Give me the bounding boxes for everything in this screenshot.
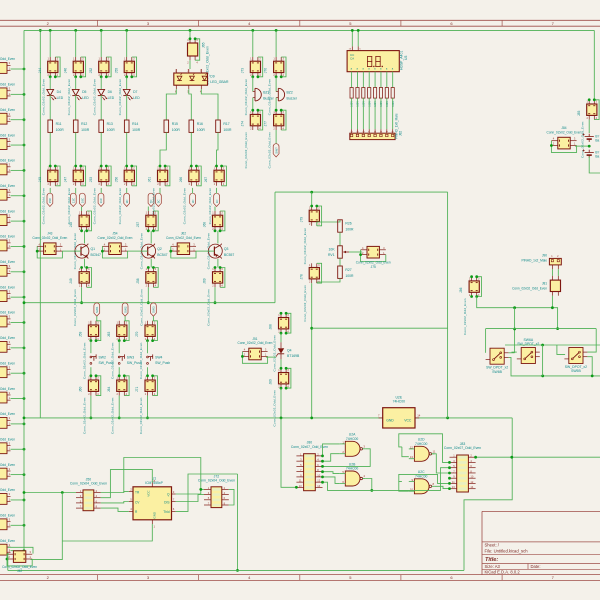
junction J78 drop: [310, 327, 313, 330]
svg-text:Conn_02x02_Odd_Even: Conn_02x02_Odd_Even: [208, 188, 212, 225]
svg-text:Conn_02x02_Odd_Even: Conn_02x02_Odd_Even: [0, 260, 15, 264]
switch SW3 SW_Push: [118, 354, 142, 365]
junction J83 pin2 node: [510, 456, 513, 459]
wire U2A out to J80 pin6: [323, 449, 371, 467]
svg-text:Conn_02x02_Odd_Even: Conn_02x02_Odd_Even: [98, 236, 133, 240]
title block: [482, 511, 600, 574]
connector J47: [63, 165, 85, 225]
junction top rail col J44: [49, 29, 52, 32]
wire R26 to RV1: [339, 232, 341, 246]
svg-text:J79: J79: [299, 217, 303, 222]
svg-text:12: 12: [410, 445, 414, 449]
svg-text:Conn_02x02_Odd_Even: Conn_02x02_Odd_Even: [238, 341, 273, 345]
junction J64 rail: [118, 417, 121, 420]
global label 7C: [148, 193, 154, 206]
svg-text:Conn_02x02_Odd_Even: Conn_02x02_Odd_Even: [0, 83, 15, 87]
svg-text:DIS: DIS: [164, 500, 169, 504]
svg-text:Conn_02x02_Odd_Even: Conn_02x02_Odd_Even: [42, 79, 46, 116]
wire J43 to Q1 base: [62, 250, 74, 252]
junction top rail col J55: [125, 29, 128, 32]
connector J46: [63, 57, 85, 115]
wire D9 pin4 to R17: [201, 89, 218, 120]
wire J65 to LED bar: [189, 60, 191, 69]
svg-text:100R: 100R: [81, 128, 90, 132]
IC U2E 74HC00 power unit: [378, 395, 421, 428]
wire battery bottom out: [589, 157, 600, 174]
connector left-column row 2 (Conn_02x02_Odd_Even): [0, 83, 25, 99]
wire J72 right bracket: [229, 489, 234, 505]
junction x237 bottom: [236, 569, 239, 572]
svg-text:B?: B?: [595, 150, 599, 154]
connector J88: [269, 312, 291, 372]
svg-text:J89: J89: [269, 379, 273, 384]
junction U1 Q node: [199, 488, 202, 491]
connector J64: [107, 374, 129, 434]
junction J50 bus x62: [61, 491, 64, 494]
svg-text:SW_Push: SW_Push: [155, 361, 170, 365]
wire RV1 to R27: [339, 258, 341, 266]
resistor R12 100R: [73, 120, 89, 132]
wire U1 Thld loop: [176, 474, 238, 511]
svg-text:J70: J70: [135, 332, 139, 337]
svg-text:Conn_02x02_Odd_Even: Conn_02x02_Odd_Even: [93, 79, 97, 116]
wire J83 pin2 long: [474, 456, 600, 459]
svg-text:J44: J44: [38, 68, 42, 73]
junction top rail col J46: [74, 29, 77, 32]
svg-text:J90: J90: [542, 253, 547, 257]
svg-text:SW1: SW1: [95, 306, 99, 313]
connector J42: [2, 550, 37, 573]
svg-text:Conn_02x02_Odd_Even: Conn_02x02_Odd_Even: [42, 188, 46, 225]
wire U2D loop top: [399, 434, 450, 463]
wire J66 to tag: [192, 188, 194, 194]
wire net A vertical left: [274, 192, 276, 303]
global label SW?: [273, 144, 279, 157]
wire second vertical rail: [39, 30, 41, 418]
junction J71 rail: [146, 417, 149, 420]
junction J49 bus: [80, 301, 83, 304]
svg-text:J75: J75: [371, 265, 376, 269]
svg-text:Q2: Q2: [157, 247, 162, 251]
svg-text:Conn_02x02_Odd_Even: Conn_02x02_Odd_Even: [244, 79, 248, 116]
connector J84: [547, 126, 582, 153]
svg-text:Conn_02x02_Odd_Even: Conn_02x02_Odd_Even: [0, 488, 15, 492]
connector J89: [269, 367, 291, 427]
junction mid rail x24: [23, 417, 26, 420]
transistor Q2 BC547: [141, 244, 168, 259]
wire J70 to SW4: [147, 341, 149, 354]
svg-text:Conn_02x02_Odd_Even: Conn_02x02_Odd_Even: [0, 311, 15, 315]
svg-text:Q1: Q1: [91, 247, 96, 251]
connector J81 Conn_02x02_Odd_Even: [512, 276, 560, 296]
svg-text:100R: 100R: [345, 274, 354, 278]
wire U3 pin2 down: [356, 72, 358, 88]
connector J49: [69, 266, 91, 326]
svg-text:SW3: SW3: [127, 355, 134, 359]
svg-text:74HC00: 74HC00: [415, 442, 428, 446]
wire J60 to bottom rail: [90, 396, 92, 418]
wire sw5b bottom drop: [587, 357, 593, 378]
svg-text:D9: D9: [210, 75, 214, 79]
svg-text:J46: J46: [63, 68, 67, 73]
wire U1 Q to J72: [176, 489, 204, 494]
resistor R18 100R: [350, 88, 354, 107]
global label SW3: [151, 303, 157, 316]
LED D4: [47, 89, 64, 100]
wire J77 to SW tag: [275, 130, 277, 144]
svg-text:J62: J62: [181, 232, 186, 236]
svg-text:16C: 16C: [81, 197, 85, 203]
svg-text:Conn_02x02_Odd_Even: Conn_02x02_Odd_Even: [183, 188, 187, 225]
wire J79 right to R26: [317, 220, 340, 226]
resistor R21 100R: [368, 88, 372, 107]
svg-text:J77: J77: [264, 121, 268, 126]
svg-text:Conn_02x02_Odd_Even: Conn_02x02_Odd_Even: [93, 188, 97, 225]
connector J76: [264, 57, 286, 115]
svg-text:J71: J71: [135, 387, 139, 392]
wire tag to J68: [214, 207, 216, 212]
svg-text:13C: 13C: [72, 197, 76, 203]
wire J64 to bottom rail: [118, 396, 120, 418]
connector J58: [136, 266, 158, 326]
svg-text:SW2: SW2: [123, 306, 127, 313]
connector left-column row 19 (Conn_02x02_Odd_Even): [0, 514, 25, 530]
svg-text:74HC00: 74HC00: [415, 474, 428, 478]
wire mid horizontal bus: [24, 302, 275, 304]
svg-text:PINHD_1x2_Male: PINHD_1x2_Male: [521, 258, 547, 262]
svg-text:Conn_02x02_Odd_Even: Conn_02x02_Odd_Even: [140, 289, 144, 326]
svg-text:Conn_02x02_Odd_Even: Conn_02x02_Odd_Even: [206, 289, 210, 326]
connector J85: [577, 98, 599, 158]
junction J80 pin2: [321, 455, 324, 458]
wire U1 DIS to J72 pin3: [176, 495, 204, 502]
wire U3 pin8 down: [392, 72, 394, 88]
wire J46 column drop: [75, 30, 77, 57]
junction top rail col J52: [100, 29, 103, 32]
wire J76 to BZ2: [275, 77, 277, 92]
svg-text:D5: D5: [82, 90, 86, 94]
svg-text:11: 11: [433, 449, 436, 453]
wire R13 to row2: [100, 132, 102, 166]
global label 13C: [70, 193, 76, 206]
svg-text:J49: J49: [69, 278, 73, 283]
junction J58 bus: [147, 301, 150, 304]
wire net A horizontal: [275, 191, 448, 193]
svg-text:Q3: Q3: [224, 247, 229, 251]
svg-text:Conn_02x04_Odd_Even: Conn_02x04_Odd_Even: [198, 479, 235, 483]
global label 16C: [79, 193, 85, 206]
svg-text:Conn_02x02_Odd_Even: Conn_02x02_Odd_Even: [268, 132, 272, 169]
wire sw bottom rail: [509, 357, 600, 376]
connector J53: [89, 165, 111, 225]
wire loop J50-U1 top: [124, 458, 201, 495]
switch SW6B SW_DPDT_x2: [486, 348, 509, 374]
wire U3 top pin B: [358, 30, 361, 50]
buzzer BZ2: [276, 88, 298, 101]
svg-text:Title:: Title:: [485, 557, 498, 563]
wire J55 column drop: [126, 30, 128, 57]
connector left-column row 1 (Conn_02x02_Odd_Even): [0, 57, 25, 73]
svg-text:15C: 15C: [48, 197, 52, 203]
wire J71 to bottom rail: [147, 396, 149, 418]
connector left-column row 8 (Conn_02x02_Odd_Even): [0, 235, 25, 251]
svg-text:J84: J84: [561, 126, 566, 130]
global label 9C: [124, 193, 130, 206]
7-segment display U3 HDSP_A401: [347, 51, 408, 72]
svg-text:100R: 100R: [351, 101, 354, 107]
wire R27 to J78: [317, 278, 340, 283]
svg-text:Conn_02x02_Odd_Even: Conn_02x02_Odd_Even: [0, 387, 15, 391]
resistor R22 100R: [373, 88, 377, 107]
junction J69 bus: [214, 301, 217, 304]
svg-text:SW3: SW3: [152, 306, 156, 313]
wire sw5b right feed: [587, 329, 596, 353]
LED D7: [123, 89, 140, 100]
connector J52: [89, 57, 111, 115]
svg-text:Conn_02x02_Odd_Even: Conn_02x02_Odd_Even: [0, 285, 15, 289]
junction top rail J65: [189, 29, 192, 32]
wire J48 to Q1 collector: [84, 231, 86, 244]
connector left-column row 14 (Conn_02x02_Odd_Even): [0, 387, 25, 403]
connector J77: [264, 109, 286, 169]
svg-text:R15: R15: [172, 122, 178, 126]
wire right rail drop to J85: [593, 30, 595, 99]
svg-text:Conn_02x02_Odd_Even: Conn_02x02_Odd_Even: [82, 342, 86, 379]
thyristor Q4 BT169B: [276, 348, 300, 358]
connector J83 Conn_02x07_Odd_Even: [444, 442, 481, 492]
connector J51: [238, 337, 273, 364]
svg-text:D7: D7: [133, 90, 137, 94]
svg-text:U3: U3: [404, 56, 408, 60]
connector J57: [136, 211, 158, 269]
NAND gate U2D 74HC00: [409, 438, 436, 462]
wire J73 drop: [252, 30, 254, 57]
wire J52 column drop: [100, 30, 102, 57]
wire J46 to D5: [75, 77, 77, 90]
wire mid rail right: [415, 417, 512, 419]
svg-text:Conn_02x02_Odd_Even: Conn_02x02_Odd_Even: [118, 188, 122, 225]
wire J42 left loop: [7, 554, 10, 571]
svg-text:J73: J73: [240, 68, 244, 73]
svg-text:J60: J60: [79, 387, 83, 392]
connector J75: [356, 246, 391, 269]
svg-text:Conn_02x02_Odd_Even: Conn_02x02_Odd_Even: [0, 412, 15, 416]
svg-text:R27: R27: [345, 268, 351, 272]
svg-text:LED: LED: [133, 96, 140, 100]
wire SW3 to J64: [118, 367, 120, 376]
svg-text:SW5B: SW5B: [571, 369, 581, 373]
svg-text:R26: R26: [345, 222, 351, 226]
wire J90 to J81 a: [551, 269, 553, 276]
wire BZ2 to J77: [275, 98, 277, 111]
global label 15C: [47, 193, 53, 206]
junction J83 left pin: [448, 482, 451, 485]
wire J73 to BZ1: [252, 77, 254, 92]
wire J81 bottom drop: [551, 296, 553, 308]
wire x237 drop: [237, 474, 239, 570]
switch SW2 SW_Push: [90, 354, 114, 365]
svg-text:BC547: BC547: [91, 253, 101, 257]
svg-text:J63: J63: [107, 332, 111, 337]
LED bar D9 LED_GBAR: [174, 69, 229, 93]
svg-text:74HC00: 74HC00: [346, 437, 359, 441]
svg-text:Conn_02x02_Odd_Even: Conn_02x02_Odd_Even: [581, 121, 585, 158]
connector J70: [135, 321, 157, 379]
junction J80 pin6: [321, 465, 324, 468]
junction U3 pin A: [351, 29, 354, 32]
NAND gate U2C 74HC00: [409, 470, 435, 494]
switch SW5B SW_DPDT_x2: [564, 348, 587, 374]
svg-text:Conn_02x02_Odd_Even: Conn_02x02_Odd_Even: [512, 286, 547, 290]
svg-text:10: 10: [410, 488, 414, 492]
wire J42 right to x62: [31, 541, 63, 560]
wire tag to J57: [147, 207, 149, 212]
connector left-column row 7 (Conn_02x02_Odd_Even): [0, 209, 25, 225]
svg-text:Sheet: /: Sheet: /: [485, 543, 500, 548]
svg-text:LED: LED: [57, 96, 64, 100]
svg-text:Conn_02x02_Odd_Even: Conn_02x02_Odd_Even: [82, 397, 86, 434]
resistor R20 100R: [362, 88, 366, 107]
wire J86 to net: [477, 297, 559, 331]
svg-text:TR: TR: [135, 491, 140, 495]
svg-text:Conn_02x02_Odd_Even: Conn_02x02_Odd_Even: [0, 133, 15, 137]
wire R21 to J82: [368, 98, 370, 129]
junction U3 pin B: [357, 29, 360, 32]
svg-text:BT169B: BT169B: [287, 354, 300, 358]
svg-text:Conn_02x02_Odd_Even: Conn_02x02_Odd_Even: [303, 228, 307, 265]
connector J54: [98, 232, 133, 259]
svg-text:Conn_02x02_Odd_Even: Conn_02x02_Odd_Even: [268, 79, 272, 116]
wire sw6a bottom drop: [542, 345, 544, 376]
svg-text:Conn_02x02_Odd_Even: Conn_02x02_Odd_Even: [0, 108, 15, 112]
wire J62 to Q3 base: [196, 250, 207, 252]
svg-text:SW_DPDT_x2: SW_DPDT_x2: [517, 342, 539, 346]
svg-text:Ba: Ba: [595, 155, 599, 159]
svg-text:R16: R16: [197, 122, 203, 126]
wire U2C loop: [399, 474, 450, 483]
svg-text:J61: J61: [148, 177, 152, 182]
wire J61 to tag: [159, 188, 161, 194]
connector J62: [166, 232, 201, 259]
wire U2D in2 jog: [402, 447, 409, 457]
resistor R23 100R: [379, 88, 383, 107]
svg-text:LED: LED: [82, 96, 89, 100]
wire R16 to J66: [190, 132, 192, 166]
svg-text:Conn_02x02_Odd_Even: Conn_02x02_Odd_Even: [244, 132, 248, 169]
svg-text:J51: J51: [252, 337, 257, 341]
wire tag to J70: [152, 316, 154, 321]
connector J73: [240, 57, 262, 115]
wire U2C out to J83: [434, 486, 449, 488]
svg-text:File: Untitled.kicad_sch: File: Untitled.kicad_sch: [485, 549, 529, 554]
wire U3 pin5 down: [374, 72, 376, 88]
battery B? top: [583, 134, 600, 143]
wire J89 down to J80: [281, 418, 296, 487]
svg-text:J86: J86: [459, 287, 463, 292]
LED D6: [98, 89, 115, 100]
svg-text:Conn_02x02_Odd_Even: Conn_02x02_Odd_Even: [0, 209, 15, 213]
svg-text:SW4: SW4: [155, 355, 162, 359]
svg-text:74HC00: 74HC00: [346, 467, 359, 471]
svg-text:100R: 100R: [345, 228, 354, 232]
wire R22 to J82: [374, 98, 376, 129]
wire J51 to Q4 gate: [266, 356, 276, 358]
connector J72 Conn_02x04_Odd_Even: [198, 474, 235, 507]
wire SW4 to J71: [147, 367, 149, 376]
wire J56 to tag: [126, 188, 128, 194]
connector J66: [179, 165, 201, 225]
connector left-column row 16 (Conn_02x02_Odd_Even): [0, 437, 25, 453]
wire J68 to Q3 collector: [217, 231, 219, 244]
svg-text:Conn_02x02_Odd_Even: Conn_02x02_Odd_Even: [118, 79, 122, 116]
switch SW4 SW_Push: [147, 354, 171, 365]
svg-text:D6: D6: [108, 90, 112, 94]
connector J65: [187, 37, 209, 85]
resistor R26 100R: [338, 220, 354, 232]
wire J55 to D7: [126, 77, 128, 90]
junction J80 pin8: [321, 470, 324, 473]
connector J80 Conn_02x07_Odd_Even: [291, 441, 328, 491]
svg-text:100R: 100R: [197, 128, 206, 132]
wire D4 to R11: [49, 95, 51, 120]
svg-text:VCC: VCC: [147, 490, 151, 497]
wire J63 to SW3: [118, 341, 120, 354]
transistor Q3 BC557: [207, 244, 234, 259]
wire J79 top: [311, 192, 313, 206]
wire J52 to D6: [100, 77, 102, 90]
wire R20 to J82: [362, 98, 364, 129]
svg-text:Conn_02x02_Odd_Even: Conn_02x02_Odd_Even: [0, 57, 15, 61]
wire J47 to tag: [75, 188, 77, 194]
connector J86: [459, 275, 481, 335]
wire J57 to Q2 collector: [150, 231, 152, 244]
connector left-column row 15 (Conn_02x02_Odd_Even): [0, 412, 25, 428]
svg-text:100R: 100R: [386, 101, 389, 107]
pin header J90 PINHD_1x2_Male: [521, 253, 561, 269]
connector left-column row 18 (Conn_02x02_Odd_Even): [0, 488, 25, 504]
svg-text:R11: R11: [56, 122, 62, 126]
connector J59: [79, 321, 101, 379]
wire J50 pin4 route: [101, 470, 153, 498]
svg-text:KiCad E.D.A. 8.0.2: KiCad E.D.A. 8.0.2: [485, 570, 521, 575]
svg-text:RV1: RV1: [328, 253, 335, 257]
connector left-column row 3 (Conn_02x02_Odd_Even): [0, 108, 25, 124]
wire tag to J48: [81, 207, 83, 212]
wire RV1 wiper to J75: [349, 251, 362, 253]
global label 1C: [214, 193, 220, 206]
wire BZ1 to J74: [252, 98, 254, 111]
svg-text:GND: GND: [386, 418, 394, 422]
IC U1 ICM7555xP: [129, 477, 176, 529]
connector left-column row 17 (Conn_02x02_Odd_Even): [0, 463, 25, 479]
junction top rail J76: [275, 29, 278, 32]
wire J50 pin2 to U1 TR: [101, 491, 129, 494]
svg-text:Conn_02x04_Odd_Even: Conn_02x04_Odd_Even: [70, 482, 107, 486]
svg-text:Conn_02x02_Odd_Even: Conn_02x02_Odd_Even: [0, 539, 15, 543]
wire J84 right to battery node: [575, 145, 589, 147]
svg-text:Conn_02x02_Odd_Even: Conn_02x02_Odd_Even: [111, 342, 115, 379]
wire Q1 emitter to J49: [84, 259, 86, 268]
wire R19 to J82: [356, 98, 358, 129]
connector J79: [299, 205, 321, 265]
svg-text:100R: 100R: [132, 128, 141, 132]
connector J60: [79, 374, 101, 434]
svg-text:Conn_02x02_Odd_Even: Conn_02x02_Odd_Even: [0, 514, 15, 518]
svg-text:SW2: SW2: [99, 355, 106, 359]
wire cross net 328: [312, 327, 448, 329]
wire mid rail corner down: [464, 418, 512, 571]
svg-text:J56: J56: [114, 177, 118, 182]
